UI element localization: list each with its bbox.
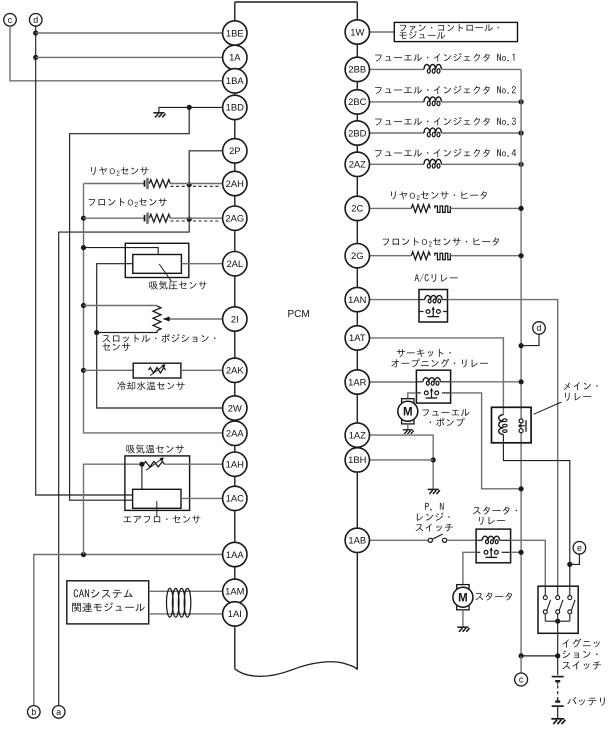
- label CAN line1: [74, 589, 133, 598]
- PCM pin 1AI: [223, 602, 247, 626]
- wire intake temp to 1AH: [165, 463, 223, 465]
- ignition switch box: [538, 586, 578, 633]
- MAP sensor outer box: [125, 243, 189, 277]
- svg-text:2AL: 2AL: [226, 258, 243, 269]
- label rear O2 sensor: [91, 167, 148, 176]
- PCM pin 1AM: [223, 579, 247, 603]
- node d: [29, 13, 42, 26]
- junction d/1BE: [33, 30, 38, 35]
- PCM pin 1AR: [345, 370, 369, 394]
- wire starter to ground: [462, 610, 464, 627]
- wire d to bus: [521, 334, 539, 345]
- svg-text:1AT: 1AT: [349, 332, 366, 343]
- leader main relay: [534, 402, 562, 414]
- svg-text:1AA: 1AA: [226, 549, 244, 560]
- junction bus/MAP: [81, 245, 86, 250]
- wire d to airflow sensor: [36, 26, 133, 495]
- cell rear O2 sensor: [144, 180, 146, 187]
- svg-text:2AH: 2AH: [226, 178, 244, 189]
- svg-text:M: M: [403, 406, 413, 418]
- main relay contact: [519, 419, 523, 423]
- junction rear heater/bus: [519, 206, 524, 211]
- wire 1BD to ground: [159, 107, 189, 112]
- junction intake-temp: [139, 462, 144, 467]
- node e: [573, 542, 586, 555]
- wire relay contact to fuel pump: [408, 393, 417, 400]
- node c bottom: [515, 673, 528, 686]
- label TPS line2: [102, 343, 130, 351]
- airflow assembly outer box: [125, 456, 190, 511]
- wire coolant to 2AK: [181, 369, 223, 371]
- junction bus/front O2: [81, 216, 86, 221]
- PCM pin 2G: [345, 244, 369, 268]
- label MAP sensor: [149, 281, 206, 290]
- cell front O2 sensor: [144, 215, 146, 222]
- CAN module box: [67, 581, 149, 624]
- PCM pin 1BA: [223, 69, 247, 93]
- wire c to 1BA: [10, 26, 223, 81]
- svg-text:1BA: 1BA: [226, 75, 244, 86]
- wire starter contact to bus: [511, 551, 521, 553]
- A/C relay contact: [419, 311, 424, 313]
- PCM pin 1BH: [345, 448, 369, 472]
- wire 1BD to airflow sensor: [70, 107, 190, 500]
- wire 1AR to relay: [370, 381, 417, 383]
- wire main bus: [520, 69, 522, 656]
- PCM pin 2BB: [345, 57, 369, 81]
- svg-text:2W: 2W: [228, 402, 242, 413]
- PCM pin 2BD: [345, 121, 369, 145]
- circuit opening relay contact: [416, 392, 420, 394]
- wire 2BD to injector: [370, 132, 425, 134]
- PCM pin 1AZ: [345, 423, 369, 447]
- wire front O2: [84, 217, 145, 219]
- wire e tap: [570, 554, 580, 564]
- PCM pin 2AH: [223, 171, 247, 195]
- wire MAP signal 2AL: [181, 263, 222, 265]
- svg-text:2AK: 2AK: [226, 365, 244, 376]
- label battery: [567, 697, 604, 706]
- junction e/main-relay wire: [567, 562, 572, 567]
- twisted pair: [167, 588, 174, 617]
- junction 2P/front O2: [187, 217, 192, 222]
- junction 1BD: [187, 105, 192, 110]
- label range switch line1: [425, 503, 443, 511]
- label starter relay line1: [473, 506, 517, 514]
- svg-text:1AI: 1AI: [228, 608, 242, 619]
- PCM pin 2P: [223, 139, 247, 163]
- label circuit opening relay line1: [397, 349, 451, 357]
- A/C relay coil: [419, 299, 425, 301]
- wire 2BB to injector: [370, 68, 425, 70]
- wire 2G to heater: [370, 255, 412, 257]
- wire intake-temp return: [84, 464, 142, 554]
- wire 1A row: [36, 56, 223, 58]
- svg-text:2C: 2C: [351, 203, 363, 214]
- fuel pump motor M1: [402, 399, 414, 403]
- svg-text:1A: 1A: [229, 52, 241, 63]
- svg-text:2G: 2G: [351, 250, 364, 261]
- label fuel pump line1: [422, 409, 469, 416]
- svg-text:c: c: [8, 15, 13, 25]
- battery BT1: [552, 676, 564, 678]
- resistor rear O2: [149, 180, 170, 188]
- svg-text:1BH: 1BH: [348, 454, 366, 465]
- wire 2I wiper: [163, 318, 222, 320]
- PCM pin 2AA: [223, 421, 247, 445]
- svg-text:2P: 2P: [229, 145, 240, 156]
- ground G1: [153, 113, 165, 118]
- PCM pin 2AG: [223, 206, 247, 230]
- junction d/1A: [33, 55, 38, 60]
- PCM pin 1W: [345, 20, 369, 44]
- wire 1AZ to ground: [370, 435, 434, 489]
- starter relay contact: [476, 551, 480, 553]
- fan control module box: [394, 22, 517, 41]
- ground G2: [403, 430, 414, 434]
- label TPS line1: [103, 334, 216, 343]
- wire injector 3 to bus: [441, 132, 521, 134]
- svg-text:1AZ: 1AZ: [349, 429, 366, 440]
- svg-text:2I: 2I: [231, 313, 239, 324]
- wire contact to starter motor: [463, 552, 476, 584]
- thermistor intake temp: [144, 462, 165, 467]
- wire rear heater to bus: [450, 207, 521, 209]
- PCM pin 2C: [345, 196, 369, 220]
- circuit opening relay box: [416, 370, 450, 403]
- label fuel injector No.4: [375, 149, 516, 158]
- label fan module line2: [400, 31, 446, 39]
- junction battery line/c row: [555, 653, 560, 658]
- node b: [28, 706, 41, 719]
- PCM pin 2I: [223, 307, 247, 331]
- ground G4: [457, 627, 469, 632]
- PCM pin 1AT: [345, 326, 369, 350]
- PCM pin 1AA: [223, 542, 247, 566]
- injector coil L1: [424, 64, 441, 69]
- svg-text:2AG: 2AG: [225, 213, 244, 224]
- heater element rear: [435, 206, 451, 212]
- junction injector 2/bus: [519, 99, 524, 104]
- thermistor coolant: [149, 368, 166, 373]
- label ignition line3: [562, 661, 601, 669]
- heater element front: [435, 253, 451, 259]
- wire ignition to battery: [557, 621, 559, 633]
- PCM pin 1BE: [223, 21, 247, 45]
- junction bus/TPS: [81, 303, 86, 308]
- label CAN line2: [72, 603, 145, 613]
- PCM pin 1AN: [345, 287, 369, 311]
- svg-text:M: M: [458, 592, 468, 604]
- label fuel injector No.3: [375, 117, 516, 126]
- wire 1BH row: [370, 459, 434, 461]
- wire intake temp to airflow box: [141, 464, 143, 489]
- junction front heater/bus: [519, 253, 524, 258]
- leader airflow label: [156, 501, 158, 517]
- airflow sensor inner box: [133, 489, 181, 508]
- svg-text:2AA: 2AA: [226, 428, 244, 439]
- wire airflow to 1AC: [181, 497, 223, 499]
- injector coil L3: [424, 128, 441, 133]
- PCM module outline: [235, 1, 357, 3]
- svg-text:2AZ: 2AZ: [349, 159, 366, 170]
- main relay coil: [499, 415, 504, 435]
- wire TPS supply: [84, 305, 158, 307]
- svg-text:1AH: 1AH: [226, 459, 244, 470]
- svg-text:1BD: 1BD: [226, 102, 244, 113]
- svg-text:d: d: [33, 15, 38, 25]
- wire front O2 signal: [170, 217, 222, 219]
- node a: [52, 706, 65, 719]
- wire rear O2: [84, 183, 145, 185]
- junction ignition common: [555, 619, 560, 624]
- starter relay coil: [476, 539, 482, 541]
- label circuit opening relay line2: [391, 359, 488, 368]
- label intake temp sensor: [126, 445, 183, 454]
- node c: [4, 13, 17, 26]
- range switch S1: [428, 538, 432, 542]
- starter relay box: [476, 529, 511, 563]
- label ignition line2: [562, 650, 597, 658]
- resistor rear heater: [411, 205, 430, 213]
- leader MAP label: [159, 264, 171, 281]
- wire fuel pump to ground: [407, 423, 409, 430]
- shield rear O2: [171, 185, 222, 187]
- PCM pin 1AH: [223, 452, 247, 476]
- wire 1W to fan module: [370, 31, 395, 33]
- PCM pin 2AL: [223, 252, 247, 276]
- label A/C relay: [415, 274, 458, 283]
- A/C relay box: [419, 290, 448, 323]
- wire switch to starter relay: [447, 539, 476, 541]
- resistor front O2: [149, 214, 170, 222]
- shield front O2: [171, 220, 222, 222]
- label front O2 sensor: [89, 198, 167, 207]
- junction relay coil/bus: [519, 379, 524, 384]
- wire front heater to bus: [450, 255, 521, 257]
- label front O2 heater: [383, 238, 499, 247]
- label starter motor: [476, 592, 513, 600]
- svg-text:2BD: 2BD: [348, 127, 366, 138]
- label main relay line2: [565, 393, 591, 401]
- PCM pin 2AK: [223, 358, 247, 382]
- svg-text:d: d: [537, 323, 542, 333]
- wire bus to battery line: [521, 655, 558, 657]
- svg-text:2BB: 2BB: [348, 64, 366, 75]
- label fuel injector No.1: [375, 53, 514, 62]
- wire injector 2 to bus: [441, 101, 521, 103]
- wire b to 1AA row: [34, 555, 223, 706]
- wire sensor return bus: [84, 184, 223, 433]
- junction d/bus: [519, 343, 524, 348]
- ground G5: [551, 719, 565, 724]
- wire injector 1 to bus: [441, 68, 521, 70]
- svg-text:1AN: 1AN: [348, 294, 366, 305]
- svg-text:c: c: [519, 675, 524, 685]
- label starter relay line2: [479, 517, 505, 525]
- wire A/C relay to ignition switch: [448, 300, 558, 587]
- wire TPS return: [97, 331, 157, 333]
- junction 2P/rear O2: [187, 182, 192, 187]
- potentiometer TPS: [153, 306, 161, 331]
- label range switch line3: [416, 524, 454, 532]
- wire 2P to node a: [59, 151, 223, 706]
- wire MAP supply: [84, 248, 159, 255]
- wire 1AN to A/C relay: [370, 299, 420, 301]
- svg-text:2BC: 2BC: [348, 96, 366, 107]
- PCM pin 1A: [223, 45, 247, 69]
- MAP sensor inner box: [133, 255, 182, 274]
- junction MAP/TPS return: [94, 330, 99, 335]
- svg-text:1AB: 1AB: [348, 535, 366, 546]
- junction starter contact/bus: [519, 550, 524, 555]
- wire CAN-H: [149, 590, 223, 592]
- wire 2BC to injector: [370, 101, 425, 103]
- label main relay line1: [564, 382, 598, 390]
- resistor front heater: [411, 252, 430, 260]
- junction injector 3/bus: [519, 130, 524, 135]
- wire main relay coil out: [503, 434, 569, 586]
- junction bus/coolant sensor: [81, 368, 86, 373]
- wire rear O2 signal: [170, 183, 222, 185]
- svg-text:1AM: 1AM: [225, 586, 244, 597]
- label fuel injector No.2: [375, 86, 516, 95]
- wire CAN-L: [149, 613, 223, 615]
- ignition switch contacts: [544, 586, 546, 595]
- node d right: [533, 322, 546, 335]
- label range switch line2: [417, 513, 450, 521]
- ground G3: [428, 489, 440, 494]
- svg-text:a: a: [56, 707, 61, 717]
- label rear O2 heater: [391, 191, 487, 200]
- svg-text:PCM: PCM: [288, 309, 310, 320]
- label fan module line1: [400, 24, 499, 32]
- wire 1AB to switch: [370, 539, 429, 541]
- junction sensor-return/1AA: [81, 552, 86, 557]
- ignition switch common bar: [545, 620, 570, 622]
- svg-text:1AR: 1AR: [348, 376, 366, 387]
- PCM pin 2W: [223, 396, 247, 420]
- wire down to node c: [520, 656, 522, 673]
- label airflow sensor: [123, 515, 200, 523]
- wire 1BD row: [189, 106, 222, 108]
- wire 1AT to main relay coil: [370, 338, 504, 415]
- starter motor M2: [457, 585, 469, 589]
- PCM pin 1AB: [345, 528, 369, 552]
- label coolant sensor: [117, 381, 185, 390]
- PCM pin 1BD: [223, 95, 247, 119]
- junction injector 4/bus: [519, 162, 524, 167]
- PCM pin 2BC: [345, 90, 369, 114]
- injector coil L2: [424, 97, 441, 102]
- coolant sensor box: [133, 363, 181, 378]
- label fuel pump line2: [430, 418, 465, 427]
- main relay box: [492, 407, 532, 443]
- wire starter coil to ignition switch: [511, 540, 546, 586]
- circuit opening relay coil: [416, 381, 423, 383]
- wire 2BZ to injector: [370, 163, 425, 165]
- wire relay contact to bus lower: [451, 393, 521, 489]
- PCM pin 1AC: [223, 486, 247, 510]
- svg-text:b: b: [31, 707, 36, 717]
- svg-text:1W: 1W: [350, 26, 364, 37]
- PCM pin 2AZ: [345, 152, 369, 176]
- junction bus/c: [519, 653, 524, 658]
- junction contact/bus: [519, 486, 524, 491]
- injector coil L4: [424, 159, 441, 164]
- svg-text:e: e: [577, 543, 582, 553]
- wire 1BE row: [36, 32, 223, 34]
- wire injector 4 to bus: [441, 163, 521, 165]
- wire 2C to heater: [370, 207, 412, 209]
- wire relay coil to bus: [451, 381, 521, 383]
- svg-text:1AC: 1AC: [226, 493, 244, 504]
- wire MAP to 2W: [97, 264, 223, 408]
- junction 1AZ/1BH: [431, 457, 436, 462]
- wire coolant row: [84, 369, 134, 371]
- svg-text:1BE: 1BE: [226, 27, 244, 38]
- label ignition line1: [562, 639, 599, 648]
